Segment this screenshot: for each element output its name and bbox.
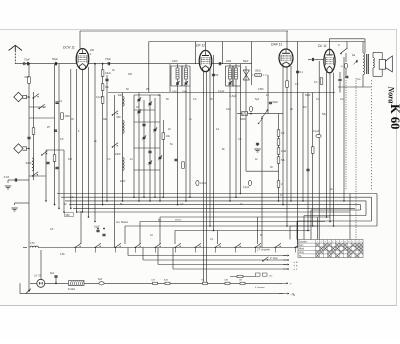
svg-text:0,1μF: 0,1μF (96, 96, 103, 99)
svg-text:200: 200 (90, 49, 95, 52)
svg-text:DL 11: DL 11 (318, 44, 327, 48)
svg-text:DAF 11: DAF 11 (271, 43, 282, 47)
svg-text:17Ω: 17Ω (30, 242, 35, 245)
svg-text:6 Lampen: 6 Lampen (255, 287, 266, 289)
svg-text:960: 960 (66, 214, 71, 217)
svg-text:0,1μF: 0,1μF (218, 90, 225, 93)
svg-text:⊣ a: ⊣ a (293, 260, 298, 264)
svg-text:100: 100 (128, 73, 133, 76)
svg-text:5μF: 5μF (255, 98, 260, 101)
svg-text:0,1μF: 0,1μF (313, 130, 320, 133)
svg-text:1000: 1000 (182, 91, 188, 93)
svg-text:DF 11: DF 11 (196, 44, 205, 48)
svg-text:UY 37: UY 37 (34, 275, 42, 278)
svg-text:0,1μF: 0,1μF (200, 182, 207, 185)
svg-text:1,5μF: 1,5μF (230, 95, 237, 98)
svg-text:75pF: 75pF (105, 57, 111, 61)
svg-text:400: 400 (118, 94, 123, 97)
svg-text:2° Anty: 2° Anty (270, 257, 278, 260)
svg-text:Ant.: Ant. (158, 219, 162, 222)
svg-text:100: 100 (68, 158, 73, 161)
svg-text:Ant. Wellen: Ant. Wellen (116, 221, 129, 224)
svg-text:-3 18: -3 18 (3, 175, 9, 179)
svg-text:3000: 3000 (26, 161, 32, 165)
svg-text:600: 600 (25, 75, 30, 79)
svg-text:0,1μF: 0,1μF (243, 186, 250, 189)
svg-text:Lang: Lang (299, 252, 305, 254)
svg-text:12V: 12V (269, 276, 273, 278)
svg-text:50μF: 50μF (305, 94, 311, 97)
svg-text:600: 600 (117, 116, 122, 119)
svg-text:8μF: 8μF (50, 272, 55, 275)
svg-text:⊣ b: ⊣ b (293, 264, 298, 268)
svg-text:5μF: 5μF (98, 278, 103, 281)
svg-text:L4B: L4B (224, 279, 228, 281)
svg-text:4,5k: 4,5k (60, 253, 65, 256)
svg-text:Nora: Nora (387, 86, 396, 104)
svg-text:50pF: 50pF (243, 60, 249, 63)
svg-text:100k: 100k (226, 60, 232, 63)
svg-text:0,25: 0,25 (226, 108, 231, 111)
svg-text:1000: 1000 (115, 153, 121, 156)
svg-text:6×1kΩ: 6×1kΩ (68, 288, 75, 291)
svg-text:K 60: K 60 (388, 104, 400, 129)
svg-text:50pF: 50pF (52, 57, 58, 61)
svg-text:Mittel: Mittel (299, 248, 305, 251)
svg-text:75pF: 75pF (24, 58, 30, 62)
svg-text:5000: 5000 (240, 118, 246, 121)
svg-text:1M: 1M (303, 106, 306, 109)
svg-text:1000: 1000 (172, 60, 178, 63)
svg-text:10μF: 10μF (94, 226, 100, 229)
svg-text:DCH 11: DCH 11 (63, 46, 75, 50)
svg-text:1kHz: 1kHz (120, 180, 126, 183)
svg-text:DB: DB (239, 279, 243, 281)
svg-text:⊣ c: ⊣ c (293, 267, 298, 271)
svg-text:Schalter: Schalter (299, 240, 308, 243)
svg-text:− N: − N (290, 292, 294, 296)
svg-text:1MΩ: 1MΩ (281, 150, 286, 153)
svg-text:10kΩ: 10kΩ (105, 72, 111, 75)
svg-text:27 Umdreh.: 27 Umdreh. (256, 248, 271, 252)
svg-text:Wellen: Wellen (175, 220, 182, 222)
svg-text:30kΩ: 30kΩ (255, 70, 261, 73)
svg-text:0,5M: 0,5M (258, 88, 263, 91)
svg-text:50pF: 50pF (273, 101, 279, 104)
svg-text:1000: 1000 (172, 91, 178, 93)
svg-text:TA: TA (299, 255, 302, 258)
